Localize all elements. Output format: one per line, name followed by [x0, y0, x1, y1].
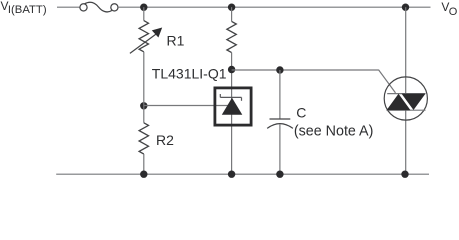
junction dot top middle branch [228, 3, 235, 10]
svg-text:R1: R1 [167, 33, 185, 49]
junction dot C branch top [276, 66, 283, 73]
resistor R1 (variable) [130, 21, 162, 54]
triac up triangle [387, 94, 411, 110]
junction dot bottom R2 branch [140, 171, 147, 178]
capacitor C [267, 119, 293, 128]
junction dot bottom C branch [276, 171, 283, 178]
junction dot cathode node [228, 66, 235, 73]
wire top rail left stub [57, 6, 80, 8]
resistor R2 [139, 123, 148, 154]
svg-text:O: O [449, 6, 458, 18]
op-amp U1 TL431LI-Q1 box [215, 88, 251, 125]
svg-text:C: C [296, 104, 306, 120]
junction dot ref node [140, 102, 147, 109]
resistor upper divider (unlabeled) [227, 21, 236, 52]
wire gate diagonal [378, 70, 395, 93]
svg-text:TL431LI-Q1: TL431LI-Q1 [152, 65, 227, 81]
junction dot bottom triac branch [401, 171, 408, 178]
wire ref pin to TL431 [144, 105, 229, 107]
fuse F1 [80, 2, 118, 12]
junction dot bottom TL431 branch [228, 171, 235, 178]
wire triac branch upper [405, 7, 407, 93]
wire left branch upper [143, 7, 145, 20]
transistor Q crowbar circle [384, 77, 427, 120]
TL431 internal triangle [222, 98, 243, 115]
wire middle branch upper [231, 7, 233, 21]
wire middle branch to cathode node [231, 53, 233, 175]
svg-text:(see Note A): (see Note A) [294, 123, 373, 139]
triac upper bar MT [387, 93, 425, 95]
wire triac branch lower [405, 110, 407, 174]
wire top rail [118, 6, 430, 8]
wire C branch upper [279, 70, 281, 119]
wire C branch lower [279, 124, 281, 174]
TL431 internal zener bar [220, 94, 241, 101]
junction dot top triac branch [402, 3, 409, 10]
triac down triangle [402, 94, 426, 110]
wire left branch bottom [143, 154, 145, 174]
wire bottom rail [56, 173, 429, 175]
svg-text:I(BATT): I(BATT) [8, 4, 47, 16]
wire cathode node to C branch [232, 69, 379, 71]
node VO label [441, 0, 457, 18]
node VI(BATT) label [1, 0, 47, 16]
triac lower bar MT [387, 109, 426, 111]
junction dot top R1 branch [140, 3, 147, 10]
svg-text:R2: R2 [156, 132, 174, 148]
wire left branch lower [143, 52, 145, 123]
